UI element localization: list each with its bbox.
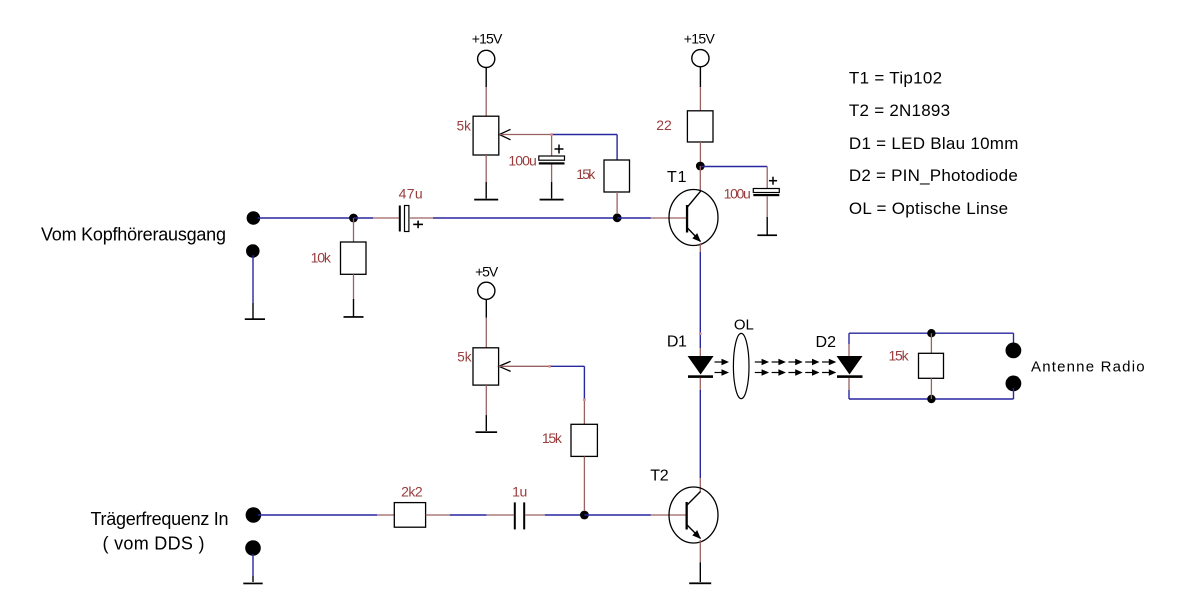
ground (5k top) [485, 182, 487, 199]
terminal pad (top input, signal) [247, 211, 261, 225]
svg-text:+15V: +15V [472, 30, 503, 46]
svg-text:+15V: +15V [684, 30, 716, 46]
wire main rail: 47u to base junction [409, 217, 433, 219]
svg-text:2k2: 2k2 [401, 483, 423, 499]
svg-text:D2: D2 [816, 334, 837, 351]
ground (10k) [353, 299, 355, 317]
D1 emission arrow 2 [715, 372, 724, 374]
svg-text:15k: 15k [542, 430, 563, 446]
wire ground stub [252, 554, 254, 576]
svg-text:100u: 100u [724, 185, 751, 201]
resistor R 10k [353, 218, 355, 242]
photon arrow c1 top [755, 361, 763, 363]
svg-text:T1: T1 [667, 169, 687, 186]
photon arrows between lens and D2 (5 cols x 2 rows) [755, 359, 837, 376]
pot bottom to ground [485, 155, 487, 182]
svg-text:Trägerfrequenz In: Trägerfrequenz In [91, 509, 230, 529]
node pin mark (15k bottom top pin) [583, 398, 586, 401]
svg-text:OL: OL [734, 316, 754, 333]
ground (T2) [699, 562, 701, 582]
potentiometer R 5k (bottom) [473, 348, 499, 385]
pot bottom to ground [485, 385, 487, 415]
svg-text:D1 = LED Blau 10mm: D1 = LED Blau 10mm [849, 134, 1019, 153]
svg-text:10k: 10k [311, 250, 332, 266]
resistor R 15k (right) [930, 333, 932, 353]
resistor R 15k (bottom) [583, 400, 585, 425]
node junction under 15k bottom [580, 511, 589, 520]
photon arrow c1 bottom [755, 372, 763, 374]
svg-text:D1: D1 [667, 334, 687, 351]
photon arrow c3 bottom [788, 372, 796, 374]
svg-text:OL = Optische Linse: OL = Optische Linse [849, 199, 1009, 218]
power terminal circle [478, 50, 495, 67]
ground (bottom input) [252, 576, 254, 582]
node junction collector [696, 162, 705, 171]
svg-text:Vom Kopfhörerausgang: Vom Kopfhörerausgang [41, 225, 227, 245]
wire D2 cathode down [848, 378, 850, 390]
potentiometer R 5k (top) [473, 116, 499, 155]
node junction at 10k [349, 214, 358, 223]
node pin mark (5k top wiper) [550, 133, 553, 136]
svg-text:22: 22 [656, 117, 672, 133]
wire bottom: D2 to antenna [849, 398, 1014, 400]
wire D2 anode up [848, 333, 850, 344]
node junction bottom of 15k right [927, 395, 935, 403]
node junction under 15k [613, 213, 622, 222]
pot wiper arrow [499, 129, 510, 139]
svg-text:5k: 5k [457, 350, 472, 365]
wire D1 cathode down to T2 collector [699, 378, 701, 390]
wire junction to T2 base [584, 514, 651, 516]
wire junction to 100u right [700, 166, 767, 168]
wire wiper to 15k [552, 134, 618, 136]
wire main rail: pad to junction [258, 217, 354, 219]
resistor R 2k2 [394, 503, 425, 528]
svg-text:1u: 1u [512, 483, 527, 499]
svg-text:5k: 5k [457, 119, 472, 134]
svg-text:47u: 47u [399, 186, 423, 202]
ground (5k bottom) [485, 415, 487, 431]
photon arrow c4 bottom [805, 372, 813, 374]
svg-text:T2: T2 [650, 468, 669, 485]
wire ground stub [252, 255, 254, 303]
photon arrow c5 bottom [822, 372, 830, 374]
capacitor C 100u (left) [551, 135, 553, 157]
power terminal circle [692, 50, 709, 67]
ground (100u right) [766, 217, 768, 235]
terminal pad (antenna top) [1006, 343, 1022, 359]
photon arrow c2 bottom [772, 372, 780, 374]
svg-text:D2 = PIN_Photodiode: D2 = PIN_Photodiode [849, 166, 1018, 185]
wire antenna right side [1013, 333, 1015, 345]
wire T1 emitter down to D1 [699, 243, 701, 252]
wire main rail: junction to 47u [354, 217, 374, 219]
wire wiper to 15k bottom [550, 365, 585, 367]
node pin mark (D1 anode wire end) [699, 332, 702, 335]
D1 emission arrow 1 [715, 361, 724, 363]
svg-text:100u: 100u [508, 153, 536, 169]
wire junction to T1 base [617, 217, 651, 219]
ground (100u left) [551, 182, 553, 199]
photon arrow c3 top [788, 361, 796, 363]
terminal pad (top input, ground) [246, 244, 260, 258]
svg-text:T2 = 2N1893: T2 = 2N1893 [849, 101, 951, 120]
svg-text:15k: 15k [889, 348, 910, 364]
svg-text:+5V: +5V [475, 263, 499, 279]
wire collector pin [699, 166, 701, 191]
wire top: D2 to antenna [849, 332, 1014, 334]
svg-text:Antenne Radio: Antenne Radio [1031, 359, 1145, 376]
photon arrow c2 top [772, 361, 780, 363]
terminal pad (bottom input, signal) [246, 507, 262, 523]
resistor R 22 [687, 111, 713, 142]
wire bottom rail to 2k2 [258, 514, 377, 516]
node pin mark (5k bottom wiper) [548, 365, 551, 368]
svg-text:T1 = Tip102: T1 = Tip102 [849, 68, 943, 87]
ground (top input) [252, 303, 254, 319]
terminal pad (antenna bottom) [1006, 376, 1022, 392]
capacitor C 100u (right) [766, 167, 768, 189]
power terminal circle [478, 282, 495, 299]
wire T2 emitter to ground [699, 540, 701, 562]
resistor R 15k (top) [604, 160, 630, 192]
photon arrow c4 top [805, 361, 813, 363]
terminal pad (bottom input, ground) [245, 540, 261, 556]
svg-text:15k: 15k [576, 166, 596, 182]
node junction top of 15k right [927, 329, 935, 337]
svg-text:( vom DDS ): ( vom DDS ) [103, 534, 206, 554]
pot wiper arrow [499, 361, 511, 371]
photon arrow c5 top [822, 361, 830, 363]
